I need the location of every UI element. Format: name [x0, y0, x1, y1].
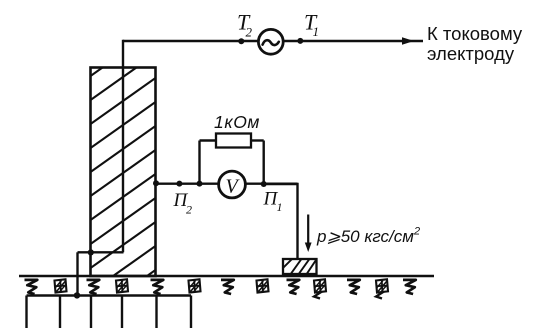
electrode 6 [190, 296, 192, 329]
electrode 2 [59, 296, 61, 329]
label П1 [263, 189, 283, 215]
electrode 5 [155, 296, 157, 329]
wire top horizontal [123, 40, 423, 42]
soil square symbol 8 [257, 279, 269, 292]
wire vertical drop into pillar [122, 40, 124, 253]
soil spring symbol 11 [347, 280, 360, 294]
junction dot on pillar left edge [88, 249, 94, 255]
node T2 dot [238, 38, 244, 44]
node T1 dot [297, 38, 303, 44]
pressure pad (hatched block) [283, 254, 320, 275]
svg-text:К токовому: К токовому [427, 23, 523, 44]
wire П1 to pressure pad [264, 184, 298, 259]
svg-text:p⩾50 кгс/см: p⩾50 кгс/см [316, 227, 414, 246]
electrode 1 [25, 296, 27, 329]
voltmeter V1 [219, 171, 246, 198]
arrow to current electrode [402, 37, 414, 45]
svg-text:1: 1 [313, 24, 320, 39]
wire resistor right stub [250, 139, 264, 141]
resistor R1 1 kOhm [216, 134, 251, 148]
junction dot bus to down-wire [74, 292, 80, 298]
soil spring symbol 9 [287, 280, 300, 294]
svg-text:2: 2 [413, 226, 420, 238]
svg-text:2: 2 [186, 203, 192, 217]
wire left riser of resistor loop [198, 141, 200, 184]
ground surface line [19, 275, 434, 278]
svg-text:1кОм: 1кОм [214, 112, 260, 132]
node П2 dot [176, 181, 182, 187]
svg-text:1: 1 [277, 200, 283, 214]
svg-text:электроду: электроду [427, 43, 515, 64]
concrete pillar (hatched) [91, 30, 156, 316]
soil square symbol 12 with spring tail [376, 279, 388, 298]
label К токовому электроду [427, 23, 523, 64]
underground bus wire [27, 294, 192, 296]
node П1 dot [261, 181, 267, 187]
wire jog left at pillar bottom [78, 251, 124, 253]
pressure arrow [305, 215, 312, 253]
wire down to underground bus [76, 252, 78, 295]
label T1 [304, 10, 319, 40]
svg-text:2: 2 [246, 25, 253, 40]
electrode 4 [121, 296, 123, 329]
label П2 [173, 190, 193, 217]
soil spring symbol 1 [25, 280, 38, 294]
soil square symbol 2 [55, 279, 67, 292]
wire right riser of resistor loop [263, 141, 265, 185]
junction dot left riser [197, 181, 203, 187]
soil spring symbol 13 [403, 280, 416, 294]
wire resistor left stub [200, 139, 218, 141]
soil spring symbol 5 [151, 280, 164, 294]
soil square symbol 10 with spring tail [314, 279, 326, 298]
soil spring symbol 3 [87, 280, 100, 294]
junction dot at pillar right edge [153, 180, 159, 186]
label p>=50 кгс/см2 [316, 226, 420, 247]
AC source G1 [258, 29, 283, 54]
soil square symbol 4 [116, 279, 128, 292]
label T2 [237, 10, 253, 40]
electrode 3 [90, 296, 92, 329]
label 1кОм [214, 112, 260, 132]
wire bottom horizontal П2-П1 [156, 182, 298, 184]
soil spring symbol 7 [221, 280, 234, 294]
soil square symbol 6 [189, 279, 201, 292]
